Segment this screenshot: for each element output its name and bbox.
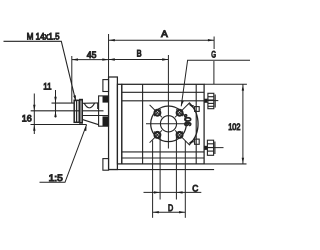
bolt hole bottom-left (150, 130, 162, 142)
bolt hole bottom-right (175, 130, 190, 145)
seal block upper (103, 96, 109, 102)
body top line extension to 102 dim (204, 83, 247, 85)
port bore extension line v2 (159, 132, 161, 200)
dimension B (109, 49, 169, 61)
body internal line bottom2 (122, 157, 204, 159)
port fitting top (208, 93, 215, 108)
tapered shaft with key (82, 103, 99, 125)
body section seam left (142, 84, 144, 164)
taper bottom extension line (31, 124, 87, 126)
dimension 90 degrees arc (183, 103, 198, 145)
body bottom line extension to 102 dim (204, 163, 246, 165)
front flange center horizontal line (146, 123, 192, 125)
front view outer circle (151, 106, 187, 142)
seal housing boss (82, 96, 109, 126)
port drill top (204, 99, 208, 102)
dimension 45 (72, 50, 109, 103)
label G (181, 50, 250, 107)
port bore extension line v1 (152, 141, 154, 218)
svg-text:16: 16 (22, 113, 32, 123)
dimension D (153, 203, 186, 213)
body internal line top2 / port centerline upper (122, 100, 204, 102)
svg-text:G: G (211, 50, 216, 60)
label 1:5 (40, 125, 87, 184)
body internal line bottom1 (122, 151, 204, 153)
front flange center vertical line (167, 55, 169, 149)
body section seam right (195, 84, 197, 164)
shaft threaded tip rod (31, 103, 104, 111)
dimension C (144, 183, 202, 193)
dimension 102 (228, 84, 244, 163)
port centerline lower stub (204, 147, 223, 149)
bolt hole top-right (175, 103, 190, 118)
port bore extension line v3 (175, 132, 177, 200)
svg-text:45: 45 (87, 50, 97, 60)
label M 14x1.5 (4, 31, 76, 101)
dimension A (109, 29, 215, 49)
svg-text:B: B (137, 49, 142, 59)
rear cover bolt lower (195, 139, 200, 144)
flange top tab (103, 80, 109, 92)
extension line shared A B 45 at flange face (108, 34, 110, 78)
svg-text:102: 102 (228, 122, 240, 132)
foot line under body (109, 169, 215, 171)
port fitting bottom (207, 140, 215, 155)
svg-text:11: 11 (43, 81, 51, 91)
dimension 16 (22, 94, 36, 135)
bolt hole top-left (150, 105, 162, 117)
rear cover bolt upper (195, 107, 200, 112)
shaft nut (74, 99, 82, 123)
port bore extension line v4 (184, 141, 186, 218)
svg-text:90°: 90° (183, 114, 193, 126)
mounting flange plate (109, 77, 122, 170)
body internal line top1 (122, 91, 204, 93)
svg-text:1:5: 1:5 (49, 173, 63, 183)
svg-text:A: A (161, 29, 168, 39)
dimension 11 (43, 81, 56, 117)
svg-text:M 14x1.5: M 14x1.5 (27, 31, 60, 41)
seal block lower (103, 116, 109, 126)
port drill bottom (204, 146, 207, 149)
flange bottom tab (103, 159, 109, 171)
pump body outline (122, 84, 204, 164)
front view inner circle (160, 116, 176, 132)
